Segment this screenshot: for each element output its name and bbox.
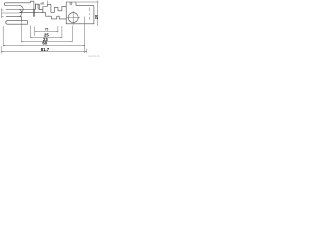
body top right bbox=[76, 5, 94, 23]
svg-text:75: 75 bbox=[45, 27, 49, 31]
bottom staircase bbox=[46, 13, 94, 24]
dimension lines bbox=[35, 30, 58, 32]
arrowheads dims bbox=[35, 30, 37, 33]
upper prong right rounded end bbox=[19, 6, 23, 13]
flange tall rect bbox=[66, 2, 76, 24]
circle (hole) bbox=[68, 13, 78, 23]
svg-text:60: 60 bbox=[42, 41, 47, 46]
leader arrowhead bbox=[33, 8, 36, 9]
rail top continues bbox=[20, 8, 36, 10]
svg-text:10-033-310: 10-033-310 bbox=[88, 54, 100, 57]
centerline of gap bbox=[2, 12, 20, 14]
lower prong bbox=[6, 17, 28, 25]
E element far left bbox=[2, 9, 4, 19]
callout extension line bbox=[46, 1, 48, 5]
svg-text:20: 20 bbox=[93, 14, 98, 19]
gap bottom edge bbox=[6, 16, 21, 18]
dashed centerline right block bbox=[89, 8, 91, 20]
leader jog from top bar to slot bbox=[30, 1, 34, 9]
narrow slot through rail bbox=[33, 9, 34, 16]
extension lines bbox=[0, 46, 2, 54]
leader extension line bbox=[34, 4, 36, 10]
raised tab on rail bbox=[35, 4, 39, 9]
gap right rounded cap bbox=[20, 9, 22, 16]
top bar (upper strip of part) bbox=[4, 3, 30, 6]
circle centerlines bbox=[67, 11, 80, 24]
right dim extension bbox=[77, 1, 99, 3]
step to castle bbox=[39, 4, 66, 12]
svg-text:⌀8: ⌀8 bbox=[40, 2, 44, 6]
dimension texts bbox=[41, 14, 99, 52]
svg-text:81.7: 81.7 bbox=[41, 47, 50, 52]
rail bottom edge bbox=[19, 12, 45, 14]
gap top edge bbox=[6, 8, 19, 10]
